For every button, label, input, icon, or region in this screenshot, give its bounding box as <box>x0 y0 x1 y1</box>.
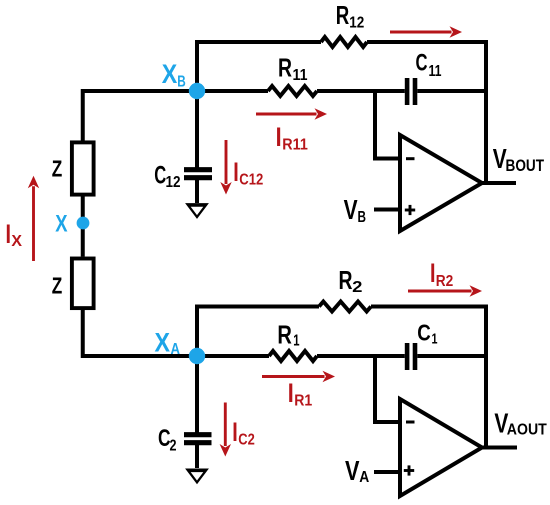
svg-text:Z: Z <box>52 272 63 298</box>
svg-text:X: X <box>155 328 171 358</box>
svg-text:R: R <box>278 53 292 83</box>
svg-text:C12: C12 <box>239 171 263 188</box>
svg-text:B: B <box>358 209 367 226</box>
svg-text:C: C <box>416 49 428 76</box>
svg-text:V: V <box>345 455 360 486</box>
svg-text:1: 1 <box>432 331 438 348</box>
svg-text:C: C <box>417 320 431 346</box>
svg-text:R: R <box>339 265 353 295</box>
svg-text:I: I <box>430 258 436 288</box>
svg-text:11: 11 <box>293 67 308 84</box>
svg-text:C: C <box>154 162 166 190</box>
svg-text:11: 11 <box>429 63 442 80</box>
svg-text:X: X <box>162 59 178 89</box>
svg-text:Z: Z <box>52 156 63 182</box>
svg-text:X: X <box>11 233 22 250</box>
svg-text:12: 12 <box>166 174 181 191</box>
svg-text:R: R <box>336 0 350 30</box>
svg-text:1: 1 <box>293 333 299 350</box>
svg-text:2: 2 <box>170 438 177 455</box>
svg-text:I: I <box>276 122 282 152</box>
svg-text:R2: R2 <box>436 273 454 290</box>
svg-text:A: A <box>359 469 369 486</box>
svg-text:X: X <box>55 211 67 238</box>
svg-text:R1: R1 <box>294 393 312 410</box>
svg-text:R: R <box>277 320 292 350</box>
svg-text:B: B <box>177 74 186 91</box>
svg-text:12: 12 <box>349 15 364 32</box>
svg-text:V: V <box>344 194 358 225</box>
svg-text:I: I <box>233 157 239 187</box>
svg-text:2: 2 <box>352 279 362 296</box>
svg-text:A: A <box>171 341 181 358</box>
svg-text:C2: C2 <box>238 432 255 449</box>
svg-text:AOUT: AOUT <box>507 422 547 439</box>
svg-text:BOUT: BOUT <box>506 157 545 175</box>
svg-text:I: I <box>232 417 238 447</box>
svg-text:I: I <box>6 219 12 249</box>
svg-text:I: I <box>288 378 294 408</box>
svg-text:R11: R11 <box>282 137 308 154</box>
